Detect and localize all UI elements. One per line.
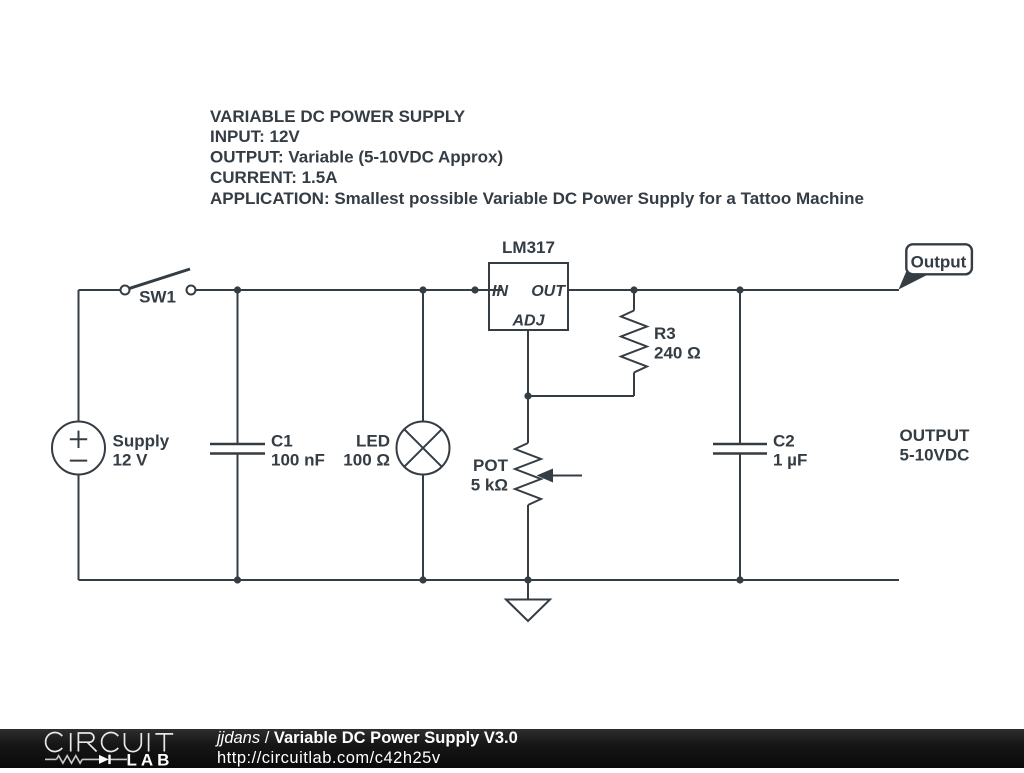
svg-text:Output: Output	[911, 253, 967, 272]
node: LED bottom junction	[419, 576, 426, 583]
svg-text:240 Ω: 240 Ω	[654, 344, 701, 363]
svg-text:INPUT: 12V: INPUT: 12V	[210, 127, 300, 146]
label: OUTPUT 5-10VDC	[900, 426, 971, 464]
svg-text:LED: LED	[356, 431, 390, 450]
node: output flag	[899, 244, 972, 289]
LED lamp 100 ohm	[343, 422, 449, 475]
svg-text:12 V: 12 V	[113, 451, 149, 470]
node: ADJ/R3 junction	[524, 392, 531, 399]
svg-text:100 nF: 100 nF	[271, 451, 325, 470]
node: C2 top junction	[736, 286, 743, 293]
logo letter I	[70, 733, 72, 752]
svg-text:R3: R3	[654, 324, 676, 343]
voltage source Supply 12 V	[52, 422, 170, 475]
svg-text:1 µF: 1 µF	[773, 451, 807, 470]
wire: LM317 ADJ pin down through node to POT	[527, 330, 529, 443]
svg-text:IN: IN	[492, 283, 508, 300]
wire: IN pin stub crossing box edge	[475, 289, 502, 291]
wire: R3 bottom to ADJ node	[528, 395, 634, 397]
svg-text:LAB: LAB	[127, 751, 174, 768]
logo letter C	[46, 733, 63, 752]
capacitor C2 1 uF	[713, 431, 807, 469]
title text block	[210, 107, 864, 208]
wire: C2 branch vertical	[739, 290, 741, 580]
node: R3 top junction	[630, 286, 637, 293]
potentiometer POT 5 kohm	[471, 443, 582, 505]
node: POT bottom junction	[524, 576, 531, 583]
capacitor C1 100 nF	[210, 431, 325, 469]
wire: C1 branch vertical	[237, 290, 239, 580]
ground	[506, 580, 550, 621]
switch SW1	[121, 269, 196, 307]
node: C1 top junction	[234, 286, 241, 293]
wire: R3 branch vertical	[633, 290, 635, 396]
svg-text:OUTPUT: OUTPUT	[900, 426, 971, 445]
wire: bottom ground rail	[79, 579, 900, 581]
node: C1 bottom junction	[234, 576, 241, 583]
svg-text:LM317: LM317	[502, 238, 555, 257]
node: C2 bottom junction	[736, 576, 743, 583]
svg-text:OUT: OUT	[531, 283, 566, 300]
wire: top rail from LM317 OUT pin to output flag	[568, 289, 899, 291]
logo diode	[99, 755, 109, 764]
svg-text:5-10VDC: 5-10VDC	[900, 445, 970, 464]
resistor R3 240 ohm	[621, 311, 701, 373]
wire: top rail from left rail to switch SW1	[79, 289, 121, 291]
wire: top rail from switch SW1 to LM317 IN pin	[196, 289, 503, 291]
wire: left rail from switch down through supply to bottom rail	[78, 290, 80, 580]
logo resistor	[57, 756, 83, 764]
svg-text:C1: C1	[271, 431, 293, 450]
footer bar	[0, 729, 1024, 768]
svg-text:APPLICATION: Smallest possible: APPLICATION: Smallest possible Variable …	[210, 189, 864, 208]
svg-text:CURRENT: 1.5A: CURRENT: 1.5A	[210, 168, 338, 187]
logo letter I	[148, 733, 150, 752]
logo wire right	[110, 758, 127, 760]
svg-text:C2: C2	[773, 431, 795, 450]
logo wire mid	[82, 758, 99, 760]
svg-text:Supply: Supply	[113, 431, 170, 450]
wire: LED branch vertical	[422, 290, 424, 580]
node: LED top junction	[419, 286, 426, 293]
svg-text:OUTPUT: Variable (5-10VDC Appr: OUTPUT: Variable (5-10VDC Approx)	[210, 148, 503, 167]
svg-text:SW1: SW1	[139, 288, 176, 307]
svg-text:POT: POT	[473, 456, 509, 475]
logo letter R	[78, 733, 96, 752]
svg-text:100 Ω: 100 Ω	[343, 451, 390, 470]
wire: POT bottom to ground rail	[527, 505, 529, 580]
op-amp box LM317 regulator U1	[489, 238, 568, 330]
logo letter T	[155, 734, 173, 752]
logo letter C	[102, 733, 119, 752]
junction dots	[234, 286, 744, 583]
logo letter U	[125, 733, 142, 752]
svg-text:ADJ: ADJ	[511, 313, 545, 330]
node: LM317 IN junction	[471, 286, 478, 293]
logo wire left	[45, 758, 57, 760]
svg-text:5 kΩ: 5 kΩ	[471, 476, 508, 495]
CircuitLab logo	[0, 729, 210, 768]
svg-text:VARIABLE DC POWER SUPPLY: VARIABLE DC POWER SUPPLY	[210, 107, 466, 126]
